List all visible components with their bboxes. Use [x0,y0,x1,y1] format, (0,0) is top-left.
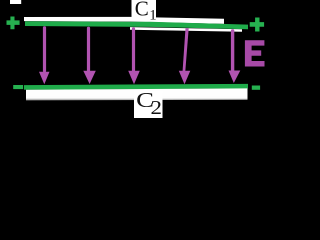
field arrow 5 (E vector) [229,29,241,83]
plate C2 white band [26,88,248,100]
minus charge right (-) [252,86,260,90]
svg-text:C: C [135,0,149,21]
svg-text:1: 1 [149,7,156,23]
label box C2 (white) [134,91,163,118]
field arrow 2 [83,27,96,84]
minus charge left (-) [13,85,23,89]
plus charge left (+) [6,17,19,30]
plate C1 white band (upper) [24,17,224,24]
field arrow 4 [179,28,191,84]
E field label [245,40,265,66]
capacitor plate C1 (green bar) [25,21,248,29]
field arrow 3 [128,27,140,84]
plate C1 white band (lower right) [130,27,242,32]
plus charge right (+) [250,18,264,32]
label box C1 (white) [132,0,157,18]
svg-text:2: 2 [151,96,162,118]
capacitor plate C2 (green bar) [24,84,248,90]
field arrow 1 [39,26,50,84]
stray white patch top-left [10,0,21,4]
